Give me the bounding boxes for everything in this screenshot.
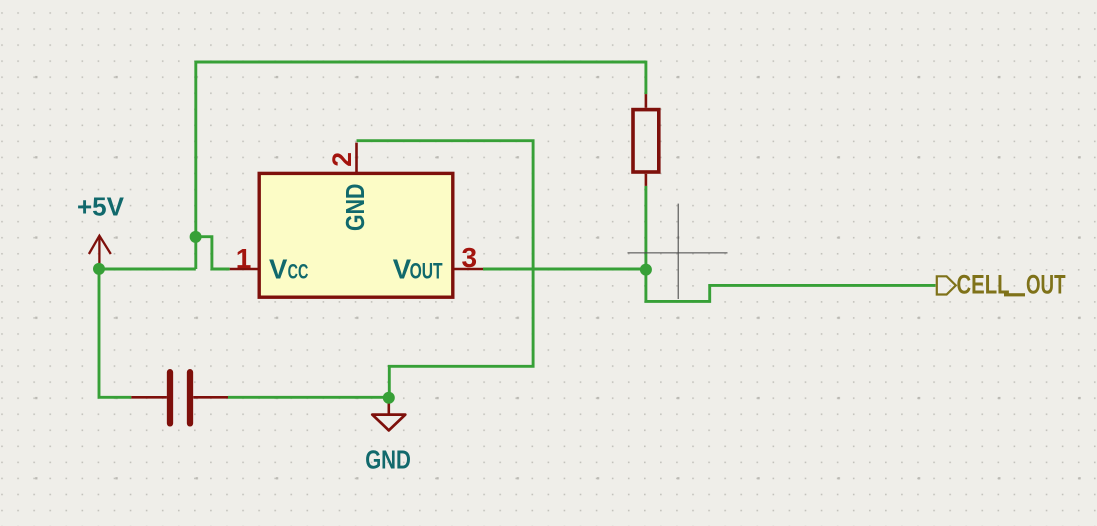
- capacitor C right pin: [193, 396, 228, 399]
- svg-text:OUT: OUT: [410, 259, 443, 284]
- op-amp U1 body: [259, 173, 453, 297]
- cursor crosshair: [628, 204, 728, 299]
- wire capacitor to GND junction: [228, 396, 389, 399]
- junction dot GND: [383, 392, 395, 404]
- svg-text:CC: CC: [288, 260, 309, 284]
- power symbol +5V arrow: [89, 236, 111, 269]
- global label CELL_OUT shape: [937, 276, 956, 294]
- wire junction to CELL_OUT label: [646, 270, 936, 302]
- svg-text:OUT: OUT: [1026, 270, 1066, 300]
- capacitor C left plate: [167, 372, 173, 423]
- resistor R body: [633, 110, 659, 172]
- global label CELL_OUT text: [957, 270, 1066, 300]
- ground label GND: [365, 447, 411, 475]
- wire GND loop from pin2: [357, 141, 534, 398]
- svg-text:+5V: +5V: [77, 192, 125, 222]
- wire VCC top horizontal: [196, 61, 646, 64]
- wire VCC left vertical: [194, 61, 197, 269]
- pin 2 line: [355, 143, 358, 174]
- junction dot output: [640, 264, 652, 276]
- pin 1 number: [236, 243, 252, 274]
- wire resistor bottom to junction: [644, 186, 647, 270]
- svg-text:GND: GND: [340, 184, 370, 232]
- svg-text:3: 3: [462, 242, 478, 273]
- resistor bottom pin: [645, 174, 648, 186]
- ground symbol: [372, 398, 405, 430]
- power label +5V: [77, 192, 125, 222]
- svg-text:CELL: CELL: [957, 270, 1010, 300]
- svg-text:V: V: [269, 254, 288, 285]
- wire +5V down to capacitor: [99, 269, 131, 397]
- wire resistor top: [644, 61, 647, 95]
- pin name Vout: [393, 254, 443, 285]
- resistor top pin: [645, 94, 648, 108]
- svg-text:1: 1: [236, 243, 252, 274]
- capacitor C right plate: [187, 372, 193, 423]
- svg-text:2: 2: [327, 152, 357, 167]
- junction dot +5V: [93, 263, 105, 275]
- junction dot jog: [190, 231, 202, 243]
- pin name GND: [340, 184, 370, 232]
- pin 3 line: [453, 268, 483, 271]
- pin name Vcc: [269, 254, 308, 285]
- svg-text:GND: GND: [365, 447, 411, 475]
- wire VOUT to junction: [483, 268, 646, 271]
- pin 3 number: [462, 242, 478, 273]
- wire jog to pin1: [196, 237, 230, 269]
- wire +5V to pin1 horizontal: [99, 268, 196, 271]
- capacitor C left pin: [131, 396, 167, 399]
- pin 1 line: [230, 268, 260, 271]
- pin 2 number: [327, 152, 357, 167]
